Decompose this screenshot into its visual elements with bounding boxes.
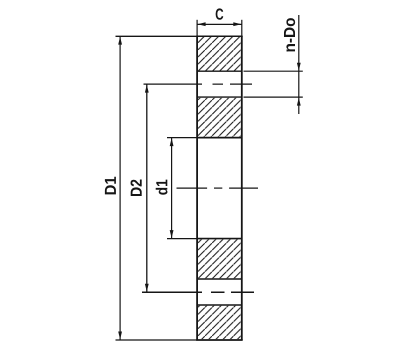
flange top edge [196,35,243,37]
D1 extension top [116,35,198,37]
d1 extension bottom [167,238,197,240]
bolt hole top upper line [197,70,242,72]
C arrow right [233,22,241,26]
flange right edge [241,36,243,340]
D1 arrow top [118,37,122,45]
label C [216,8,224,19]
hatch section lower-mid [198,239,241,278]
d1 arrow bottom [170,230,174,238]
d1 extension top [167,137,197,139]
D1 arrow bottom [118,332,122,340]
n-Do arrow top [297,63,301,71]
dimension d1 line [171,138,173,239]
n-Do arrow bottom [297,98,301,106]
dimension C line [197,23,242,25]
n-Do extension top [244,70,303,72]
D2 arrow bottom [145,284,149,292]
flange left edge [196,36,198,340]
flange bottom edge [196,339,243,341]
bolt hole top lower line [197,96,242,98]
D1 extension bottom [116,339,198,341]
label n-Do [284,18,295,51]
bolt hole bottom lower line [197,304,242,306]
bore bottom edge [197,238,242,240]
label D2 [131,180,142,197]
bottom bolt centerline [142,291,254,293]
hatch section bottom [198,306,241,339]
D2 arrow top [145,85,149,93]
dimension D1 line [119,36,121,340]
bore top edge [197,137,242,139]
d1 arrow top [170,138,174,146]
dimension D2 line [146,84,148,292]
label D1 [105,177,116,195]
C arrow left [198,22,206,26]
C extension line left [196,20,198,36]
hatch section top [198,37,241,71]
top bolt centerline [144,83,253,85]
bolt hole bottom upper line [197,278,242,280]
n-Do extension bottom [244,96,303,98]
label d1 [156,180,168,195]
C extension line right [241,20,243,36]
main centerline [177,187,259,189]
dimension n-Do line [298,15,300,114]
hatch section upper-mid [198,98,241,137]
